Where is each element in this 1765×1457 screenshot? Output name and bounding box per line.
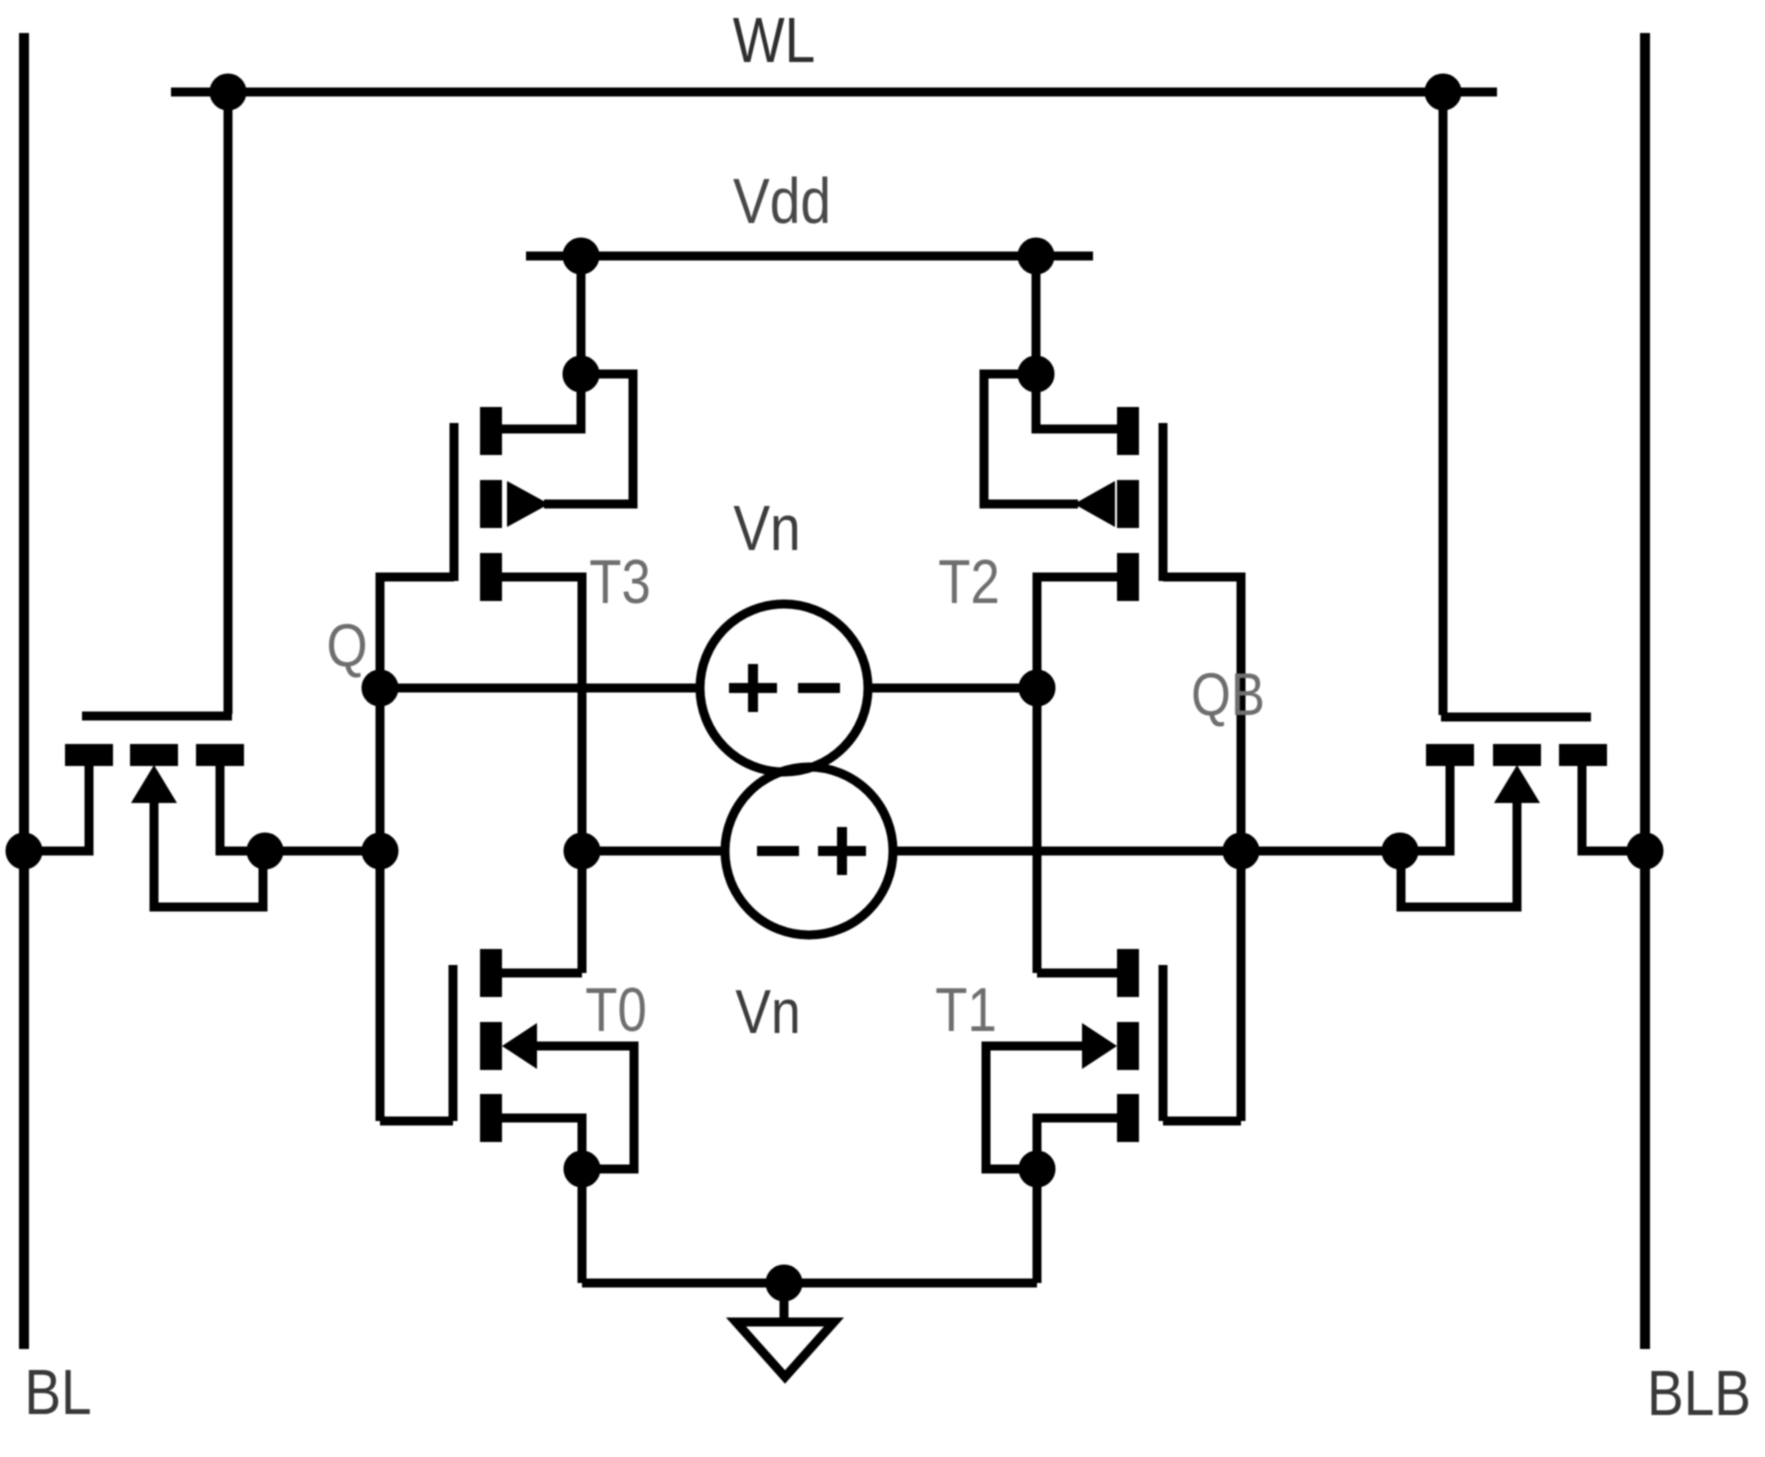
- wire BL bit line: [19, 33, 29, 1349]
- wire T0 bulk loop: [532, 1046, 634, 1169]
- svg-text:T2: T2: [938, 548, 999, 617]
- wire T3 source lead: [502, 378, 581, 429]
- svg-text:T3: T3: [589, 548, 650, 617]
- node left inverter output on lower rail: [568, 837, 596, 865]
- wire Vdd to T3 source: [577, 256, 586, 374]
- node BLB junction: [1631, 837, 1659, 865]
- wire upper noise source to T2 drain: [868, 684, 1037, 693]
- voltage source Vn lower: [725, 767, 893, 935]
- wire right access drain lead: [1400, 766, 1450, 851]
- node Q on lower rail: [366, 837, 394, 865]
- wire left access drain to BL: [24, 766, 89, 851]
- wire T1 gate connection: [1163, 1117, 1241, 1126]
- wire Q vertical: [376, 577, 385, 1121]
- wire T1 source lead: [1037, 1118, 1117, 1169]
- wire T3 drain to T0 drain: [502, 577, 582, 973]
- wire T1 source to ground rail: [1033, 1169, 1042, 1283]
- node upper rail right junction: [1023, 674, 1051, 702]
- wire left inverter output to lower noise source: [582, 847, 725, 856]
- wire T2 bulk loop: [984, 374, 1078, 504]
- transistor T1 NMOS pull-down right: [1082, 949, 1163, 1142]
- svg-text:Vn: Vn: [735, 978, 800, 1047]
- node T2 source junction: [1022, 360, 1050, 388]
- svg-text:BL: BL: [24, 1356, 91, 1428]
- transistor T3 PMOS pull-up left: [454, 407, 549, 601]
- svg-text:T1: T1: [935, 976, 996, 1045]
- voltage source Vn upper: [700, 604, 868, 772]
- wire WL to left access gate: [224, 92, 233, 714]
- wire QB vertical: [1237, 577, 1246, 1121]
- node WL right junction: [1429, 78, 1457, 106]
- wire WL to right access gate: [1439, 92, 1448, 715]
- wire T3 gate to Q: [380, 577, 454, 581]
- node Vdd left junction: [567, 242, 595, 270]
- wire T2 source lead: [1036, 378, 1117, 429]
- node Vdd right junction: [1022, 242, 1050, 270]
- node left access source junction: [251, 837, 279, 865]
- svg-text:QB: QB: [1191, 661, 1265, 728]
- wire BLB bit line: [1640, 33, 1650, 1349]
- wire T1 bulk loop: [986, 1046, 1087, 1169]
- node Q: [366, 674, 394, 702]
- node T1 source junction: [1023, 1155, 1051, 1183]
- svg-text:BLB: BLB: [1647, 1357, 1751, 1429]
- wire T3 bulk loop: [544, 374, 633, 504]
- svg-text:T0: T0: [585, 976, 646, 1045]
- wire T0 gate connection: [380, 1117, 453, 1126]
- svg-text:Q: Q: [326, 612, 367, 679]
- wire T1 drain lead: [1037, 969, 1117, 978]
- node WL left junction: [214, 78, 242, 106]
- wire WL word line: [171, 88, 1497, 97]
- wire right access bulk loop: [1401, 796, 1517, 907]
- transistor T0 NMOS pull-down left: [453, 949, 537, 1142]
- svg-text:Vdd: Vdd: [733, 165, 831, 237]
- wire T2 gate to QB: [1163, 577, 1241, 581]
- svg-text:WL: WL: [733, 4, 816, 76]
- wire right access source to BLB: [1582, 766, 1645, 851]
- wire T2 drain to T1 drain: [1037, 577, 1117, 973]
- wire Q to upper noise source: [380, 684, 700, 693]
- node BL junction: [10, 837, 38, 865]
- wire lower noise source to QB rail: [893, 847, 1400, 856]
- wire T0 source to ground rail: [578, 1169, 587, 1283]
- ground: [736, 1283, 834, 1377]
- wire ground rail: [582, 1279, 1037, 1288]
- wire T0 drain lead: [502, 969, 582, 978]
- wire left access source lead: [220, 766, 265, 851]
- svg-text:Vn: Vn: [733, 492, 800, 564]
- wire Vdd to T2 source: [1032, 256, 1041, 374]
- wire Vdd rail: [526, 252, 1093, 261]
- node QB on lower rail: [1227, 837, 1255, 865]
- wire left access to Q: [265, 847, 380, 856]
- node T3 source junction: [567, 360, 595, 388]
- wire T0 source lead: [502, 1118, 582, 1169]
- wire left access bulk loop: [154, 796, 263, 907]
- node ground junction: [770, 1269, 798, 1297]
- node T0 source junction: [568, 1155, 596, 1183]
- node right access connection: [1386, 837, 1414, 865]
- transistor left access pass gate: [65, 716, 244, 803]
- transistor T2 PMOS pull-up right: [1074, 407, 1163, 601]
- transistor right access pass gate: [1426, 717, 1607, 803]
